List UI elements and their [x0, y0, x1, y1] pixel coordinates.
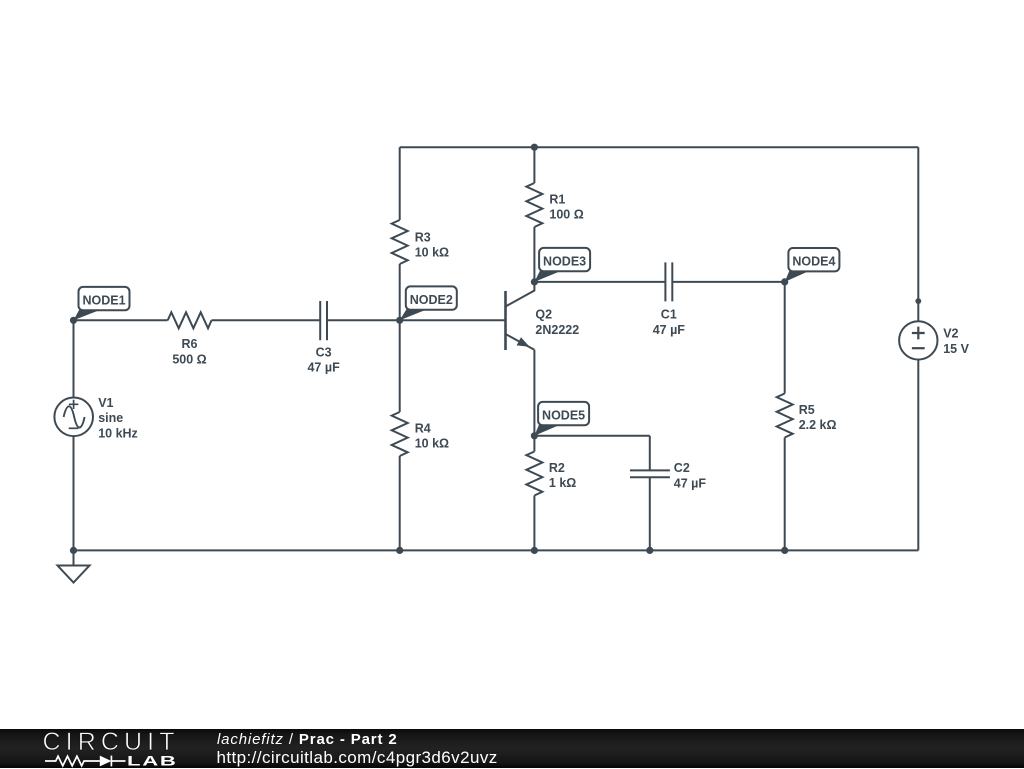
- transistor Q2 emitter diagonal: [506, 334, 535, 350]
- resistor R6 zigzag: [168, 312, 212, 328]
- junction dot NODE1: [70, 317, 77, 324]
- resistor R1: lead, zigzag, lead: [533, 147, 535, 183]
- svg-text:NODE3: NODE3: [543, 255, 586, 269]
- capacitor C3 plates: [320, 301, 327, 340]
- node label box NODE4: [788, 248, 839, 271]
- junction dot V2 top terminal: [915, 298, 921, 304]
- resistor R2: lead, zigzag, lead: [533, 436, 535, 452]
- wire NODE1 down to V1 + terminal: [73, 320, 75, 397]
- wire V1 - terminal down to bottom rail: [73, 436, 75, 550]
- wire C2 bottom plate to bottom rail: [649, 477, 651, 550]
- transistor Q2 collector diagonal: [506, 282, 535, 307]
- V1 plus mark: [69, 400, 78, 409]
- svg-text:1 kΩ: 1 kΩ: [549, 476, 576, 490]
- svg-text:NODE2: NODE2: [410, 293, 453, 307]
- logo LAB text: [127, 753, 178, 769]
- junction dot NODE2: [396, 317, 403, 324]
- svg-text:V2: V2: [943, 327, 958, 341]
- svg-text:R1: R1: [549, 192, 565, 206]
- svg-text:R2: R2: [549, 461, 565, 475]
- svg-text:R5: R5: [799, 403, 815, 417]
- footer title: [217, 731, 398, 748]
- junction dot R2 bottom: [531, 547, 538, 554]
- V1 minus mark: [69, 427, 79, 429]
- svg-text:10 kΩ: 10 kΩ: [415, 437, 449, 451]
- wire R6 to C3 left plate: [212, 319, 321, 321]
- footer bar: [0, 729, 1024, 768]
- svg-text:R4: R4: [415, 421, 431, 435]
- wire Q2 emitter down to NODE5: [533, 350, 535, 436]
- wire C1 right plate to NODE4: [672, 281, 784, 283]
- voltage source V1 circle: [54, 398, 93, 437]
- wire NODE3 to C1 left plate: [534, 281, 665, 283]
- svg-text:R3: R3: [415, 230, 431, 244]
- node label box NODE1: [79, 287, 130, 310]
- svg-text:10 kHz: 10 kHz: [98, 426, 138, 440]
- node label tail NODE5: [534, 424, 559, 436]
- svg-text:47 µF: 47 µF: [307, 361, 340, 375]
- svg-text:2N2222: 2N2222: [535, 323, 579, 337]
- node label tail NODE4: [785, 270, 809, 282]
- svg-text:C2: C2: [674, 461, 690, 475]
- svg-text:V1: V1: [98, 396, 113, 410]
- resistor R3: lead, zigzag, lead: [399, 147, 401, 220]
- svg-text:47 µF: 47 µF: [653, 323, 686, 337]
- junction dot NODE3: [531, 278, 538, 285]
- voltage source V2 circle: [899, 321, 937, 359]
- junction dot R1 top rail: [531, 144, 538, 151]
- svg-text:500 Ω: 500 Ω: [172, 352, 206, 366]
- junction dot C2 bottom: [646, 547, 653, 554]
- svg-text:C1: C1: [661, 308, 677, 322]
- wire NODE5 to C2 top lead: [534, 435, 649, 437]
- wire top rail from R3 top to V2 branch: [400, 146, 919, 148]
- svg-text:100 Ω: 100 Ω: [549, 208, 583, 222]
- wire right branch: top rail down to V2 + terminal: [917, 147, 919, 321]
- resistor R5: lead, zigzag, lead: [784, 282, 786, 394]
- junction dot NODE4: [781, 278, 788, 285]
- node label box NODE5: [538, 402, 589, 425]
- ground stub below junction: [73, 550, 75, 565]
- svg-text:15 V: 15 V: [943, 342, 969, 356]
- junction dot NODE5: [531, 432, 538, 439]
- node label box NODE2: [406, 286, 457, 309]
- node label box NODE3: [539, 248, 590, 271]
- junction dot R5 bottom: [781, 547, 788, 554]
- capacitor C2 plates: [630, 470, 670, 477]
- svg-text:sine: sine: [98, 411, 123, 425]
- svg-text:R6: R6: [182, 337, 198, 351]
- wire bottom ground rail: [74, 549, 919, 551]
- junction dot ground: [70, 547, 77, 554]
- svg-text:NODE1: NODE1: [82, 294, 125, 308]
- V1 sine glyph: [64, 406, 85, 427]
- svg-text:C3: C3: [316, 345, 332, 359]
- wire V2 - terminal down to bottom rail: [917, 360, 919, 551]
- node label tail NODE1: [74, 309, 100, 320]
- svg-text:47 µF: 47 µF: [674, 476, 707, 490]
- footer url: [217, 748, 498, 768]
- svg-text:NODE5: NODE5: [542, 409, 585, 423]
- wire NODE1 to R6 left lead: [74, 319, 168, 321]
- capacitor C1 plates: [665, 262, 672, 301]
- wire C2 top lead down to top plate: [649, 436, 651, 471]
- transistor Q2 base bar: [504, 291, 507, 350]
- V2 minus mark: [912, 347, 925, 349]
- svg-text:Q2: Q2: [535, 308, 552, 322]
- node label tail NODE2: [400, 308, 427, 320]
- Q2 emitter arrowhead: [517, 337, 530, 347]
- svg-text:10 kΩ: 10 kΩ: [415, 246, 449, 260]
- CircuitLab logo wordmark: [43, 728, 180, 757]
- wire C3 right plate to Q2 base: [327, 319, 506, 321]
- logo resistor-diode glyph: [43, 754, 127, 768]
- ground triangle: [58, 566, 90, 583]
- V2 plus mark: [912, 327, 925, 340]
- svg-text:2.2 kΩ: 2.2 kΩ: [799, 418, 837, 432]
- junction dot R4 bottom: [396, 547, 403, 554]
- diode triangle: [100, 756, 112, 767]
- node label tail NODE3: [534, 270, 560, 282]
- svg-text:NODE4: NODE4: [792, 255, 835, 269]
- resistor R4: lead, zigzag, lead: [399, 320, 401, 412]
